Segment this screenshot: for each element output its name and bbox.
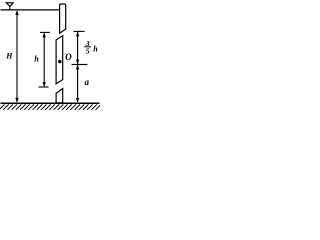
hinge dot O [58, 60, 61, 63]
dimension line h [39, 32, 51, 87]
wall upper slab [60, 4, 66, 33]
ground line [1, 102, 100, 104]
svg-text:5: 5 [86, 46, 90, 55]
fraction 3/5 h [84, 39, 98, 56]
svg-text:a: a [85, 77, 90, 87]
dimension line 3/5h [74, 31, 85, 64]
ground hatching [0, 104, 101, 109]
water surface line [1, 9, 60, 11]
dimension line a [76, 65, 79, 103]
dimension line H [15, 10, 18, 102]
wall middle slab (gate) [56, 36, 63, 84]
separator bar at O level [72, 64, 88, 66]
water surface symbol (nabla) [6, 3, 13, 10]
svg-text:h: h [34, 54, 39, 63]
svg-text:h: h [93, 44, 98, 53]
wall bottom piece [56, 89, 63, 103]
svg-text:O: O [65, 52, 72, 62]
svg-text:H: H [5, 52, 13, 61]
